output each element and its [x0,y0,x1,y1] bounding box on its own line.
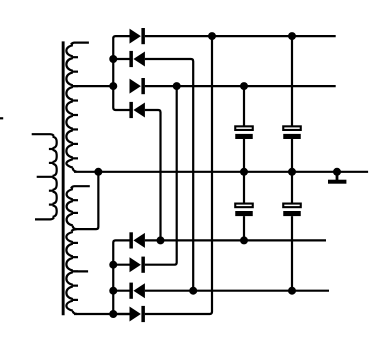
capacitor C4 [283,172,301,291]
wire bus to D2 [113,58,129,60]
upper diode bus wire [113,36,129,110]
diode D6 [130,257,145,273]
capacitor C3 [235,172,253,241]
junction lower bus / D7 [109,287,117,295]
wire bus to D8 [113,313,129,315]
output rail 1 (+V1) [145,35,336,37]
diode D7 [129,283,145,299]
output rail 3 (-V2) [145,239,326,241]
wire D2 anode down to rail 4 [145,59,193,291]
lower diode bus wire [113,240,129,314]
diode D1 [130,28,145,44]
junction rail4 / D2 riser [189,287,197,295]
capacitor C1 [235,86,253,172]
junction lower bus / L4 lead [109,310,117,318]
diode D3 [130,78,145,94]
diode D8 [130,306,145,322]
junction rail3 / D4 riser [157,236,165,244]
transformer secondary winding L4 (lower) [66,229,76,314]
junction upper bus / D2 [109,55,117,63]
wire bus to D7 [113,290,129,292]
junction common rail / C1-C3 [240,168,248,176]
transformer core [62,41,65,315]
diode D5 [129,232,145,248]
wire L4 bottom to lower diode bus [74,313,130,315]
ground junction [333,168,341,176]
output rail 2 (+V2) [145,85,336,87]
secondary L4 junction ticks [72,243,78,300]
wire L3/L4 junction to common rail branch [74,172,99,229]
junction rail4 / C4 [288,287,296,295]
junction upper bus / L2 tap [109,82,117,90]
junction rail1 / D8 riser [208,32,216,40]
secondary L2 junction ticks [72,57,78,158]
capacitor C2 [283,36,301,172]
diode D2 [129,51,145,67]
junction lower bus / D6 [109,261,117,269]
junction common rail / C2-C4 [288,168,296,176]
secondary L2 tap wire to upper diode bus [72,85,114,87]
primary center tap wire [37,176,54,178]
transformer primary winding L1 [32,134,57,219]
transformer secondary winding L2 (upper) [66,43,89,172]
common rail (0V) [74,171,368,173]
wire bus to D6 [113,264,129,266]
ground [328,172,346,184]
secondary L4 tap stub [72,270,89,272]
junction common rail / L3-L4 branch [94,168,102,176]
secondary L3 junction ticks [72,200,78,213]
primary winding lead stub (clipped, left edge) [0,117,3,119]
output rail 4 (-V1) [145,290,329,292]
wire D8 cathode up to rail 1 [145,36,212,314]
primary winding junction ticks [49,149,54,205]
diode D4 [129,102,145,118]
junction rail2 / D6 riser [173,82,181,90]
wire D4 anode down to rail 3 [145,110,161,240]
junction rail1 / C2 [288,32,296,40]
wire D6 cathode up to rail 2 [145,86,177,265]
junction rail2 / C1 [240,82,248,90]
junction rail3 / C3 [240,236,248,244]
transformer secondary winding L3 (middle) [67,186,90,229]
